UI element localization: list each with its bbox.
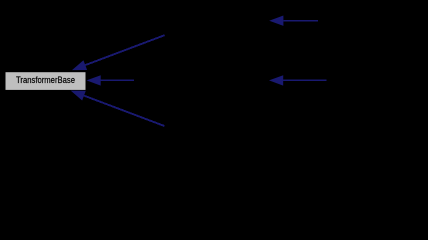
inheritance arrow E: from hidden far-right node (middle) to hidden middle node (middle) [269, 75, 326, 85]
inheritance arrow D: from hidden far-right node (top) to hidden middle node (top) [269, 15, 318, 25]
node TransformerBase (current class box) [6, 72, 86, 90]
svg-text:TransformerBase: TransformerBase [16, 75, 75, 85]
inheritance arrow C: from hidden derived node (bottom middle) to TransformerBase bottom edge [71, 91, 165, 126]
inheritance arrow B: from hidden derived node (middle) to TransformerBase right edge [87, 75, 134, 85]
inheritance arrow A: from hidden derived node (top middle) to TransformerBase top edge [72, 35, 165, 70]
